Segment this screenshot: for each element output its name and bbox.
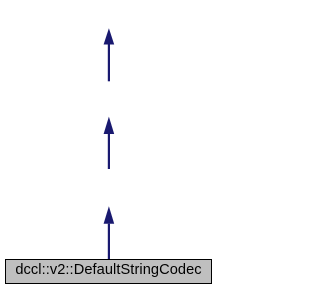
arrowhead middle edge [104, 117, 115, 134]
wire shaft bottom edge [108, 224, 110, 260]
edge from derived class box (bottom inheritance level) [104, 206, 115, 259]
node box dccl::v2::DefaultStringCodec (current class, grey fill) [5, 259, 212, 284]
edge middle (second inheritance level) [104, 117, 115, 169]
arrowhead top edge [104, 28, 115, 44]
wire shaft middle edge [108, 134, 110, 169]
edge to top base class node [104, 28, 115, 81]
wire shaft top edge [108, 45, 110, 82]
node label dccl::v2::DefaultStringCodec [0, 263, 217, 278]
arrowhead bottom edge [104, 206, 115, 223]
inheritance edges (graphviz midnightblue, pointing up to base classes) [0, 0, 217, 291]
